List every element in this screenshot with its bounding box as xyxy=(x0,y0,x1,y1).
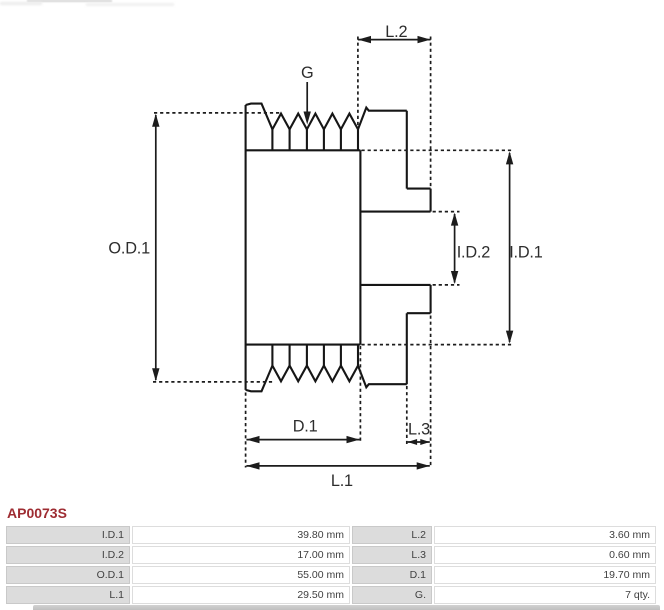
table row I.D.1 / L.2 xyxy=(6,526,656,604)
L.3 right arrowhead xyxy=(420,439,430,445)
svg-text:I.D.1: I.D.1 xyxy=(509,243,543,261)
I.D.1 bottom extension dashed line xyxy=(362,344,514,346)
I.D.1 top extension dashed line xyxy=(362,149,514,151)
L.3 left arrowhead xyxy=(408,439,418,445)
L.2 dimension line xyxy=(358,39,431,41)
svg-text:L.3: L.3 xyxy=(408,421,430,439)
pulley top rim and groove zigzag xyxy=(246,104,407,130)
hub lower outer face xyxy=(406,313,408,384)
svg-text:O.D.1: O.D.1 xyxy=(108,240,150,258)
I.D.2 bottom arrowhead xyxy=(451,271,458,284)
hub lower step horizontal xyxy=(407,312,431,314)
svg-text:D.1: D.1 xyxy=(293,417,318,435)
D.1 left arrowhead xyxy=(246,436,259,443)
O.D.1 bottom arrowhead xyxy=(152,368,159,381)
faint cropped artifact top-left streak 2 xyxy=(0,2,42,5)
L.1 right arrowhead xyxy=(417,462,430,469)
right extension dashed line upper (L.2) xyxy=(430,37,432,189)
pulley right body face xyxy=(359,150,361,344)
L.3 left extension dashed line xyxy=(406,386,408,444)
table row O.D.1 / D.1 xyxy=(6,566,656,584)
O.D.1 dimension line xyxy=(155,115,157,380)
bottom groove valley slot lines xyxy=(272,345,358,366)
svg-text:G: G xyxy=(301,64,313,82)
I.D.2 top arrowhead xyxy=(451,213,458,226)
I.D.2 dimension line xyxy=(454,214,456,283)
faint cropped artifact top-left streak 3 xyxy=(86,3,174,6)
bottom groove root line xyxy=(246,344,361,346)
I.D.2 top extension dashed line xyxy=(433,211,460,213)
hub upper step horizontal xyxy=(407,188,431,190)
I.D.1 bottom arrowhead xyxy=(506,331,513,344)
D.1 right extension dashed line xyxy=(359,346,361,442)
L.2 right arrowhead xyxy=(418,36,431,43)
O.D.1 top extension dashed line xyxy=(154,112,281,114)
O.D.1 bottom extension dashed line xyxy=(153,381,273,383)
I.D.1 dimension line xyxy=(509,153,511,342)
G leader line xyxy=(306,82,308,118)
D.1 dimension line xyxy=(246,439,359,441)
faint cropped artifact top-left streak 1 xyxy=(27,0,112,2)
L.1 left arrowhead xyxy=(246,462,259,469)
hub lower step vertical xyxy=(430,285,432,313)
left extension dashed line (D.1 / L.1) xyxy=(245,393,247,468)
top groove root line xyxy=(246,149,361,151)
L.2 left arrowhead xyxy=(358,36,371,43)
table row L.1 / G. xyxy=(6,586,656,604)
pulley bottom rim and groove zigzag xyxy=(246,366,407,392)
hub upper outer face xyxy=(406,111,408,189)
svg-text:L.1: L.1 xyxy=(331,472,353,490)
G arrowhead xyxy=(304,112,311,125)
I.D.2 bottom extension dashed line xyxy=(433,284,460,286)
pulley left face xyxy=(245,105,247,390)
bottom cut-off gray strip xyxy=(33,605,660,610)
top groove valley slot lines xyxy=(272,129,358,150)
L.1 dimension line xyxy=(246,465,429,467)
D.1 right arrowhead xyxy=(347,436,360,443)
hub upper step vertical xyxy=(430,189,432,212)
part number heading xyxy=(7,505,67,521)
L.2 left extension dashed line xyxy=(357,37,359,130)
svg-text:L.2: L.2 xyxy=(385,23,407,41)
bore bottom line xyxy=(360,284,430,286)
bore top line xyxy=(360,211,430,213)
I.D.1 top arrowhead xyxy=(506,151,513,164)
right extension dashed line lower (L.1) xyxy=(430,316,432,468)
table row I.D.2 / L.3 xyxy=(6,546,656,564)
L.3 dimension line xyxy=(408,441,430,443)
dimensions table xyxy=(4,524,658,606)
O.D.1 top arrowhead xyxy=(152,114,159,127)
svg-text:I.D.2: I.D.2 xyxy=(457,243,491,261)
